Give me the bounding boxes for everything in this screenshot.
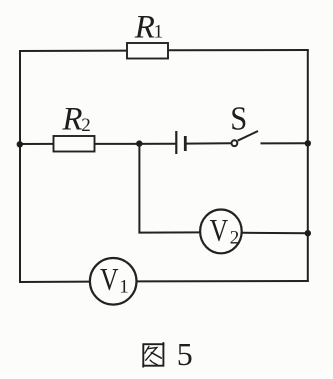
node C: junction of middle wire and right rail [305,140,311,146]
label R2 [61,102,90,138]
caption: character 图 (drawn strokes) [143,343,163,367]
switch S lever (open) [238,131,258,141]
svg-text:1: 1 [154,22,164,43]
caption: figure number 5 [177,336,193,372]
svg-text:2: 2 [230,228,240,249]
label R1 [134,9,163,45]
node A: junction of middle wire and V2 branch [136,140,142,146]
wire: V2 branch horizontal to meter [138,231,200,233]
wire: bottom, left rail to V1 [19,281,90,283]
wire: V2 meter to right rail [242,232,309,234]
svg-text:2: 2 [81,115,91,136]
battery cell: short negative plate [184,136,187,151]
wire: right rail [307,50,309,282]
label S [230,100,247,137]
wire: top left segment [19,50,127,52]
wire: top right segment [168,49,309,51]
wire: battery to switch [186,142,231,144]
svg-text:5: 5 [177,336,193,372]
wire: left rail [19,51,21,282]
wire: middle, left rail to R2 [19,143,54,145]
wire: middle, R2 to battery [95,143,176,145]
svg-text:R: R [134,9,155,45]
svg-text:S: S [230,100,247,137]
wire: switch to right rail [261,142,309,144]
switch S pivot circle [232,140,238,146]
resistor R1 [127,43,168,59]
wire: bottom, V1 to right rail [137,280,309,282]
voltmeter V2 [200,210,242,254]
svg-text:R: R [61,102,82,138]
svg-text:1: 1 [119,277,129,298]
voltmeter V1 [90,258,137,305]
resistor R2 [54,136,95,152]
node D: junction of V2 branch and right rail [305,230,311,236]
battery cell: long positive plate [175,131,177,154]
node B: junction of left rail and middle wire [17,141,23,147]
svg-text:V: V [210,212,229,248]
svg-text:V: V [100,261,119,297]
wire: V2 branch vertical drop [138,144,140,233]
